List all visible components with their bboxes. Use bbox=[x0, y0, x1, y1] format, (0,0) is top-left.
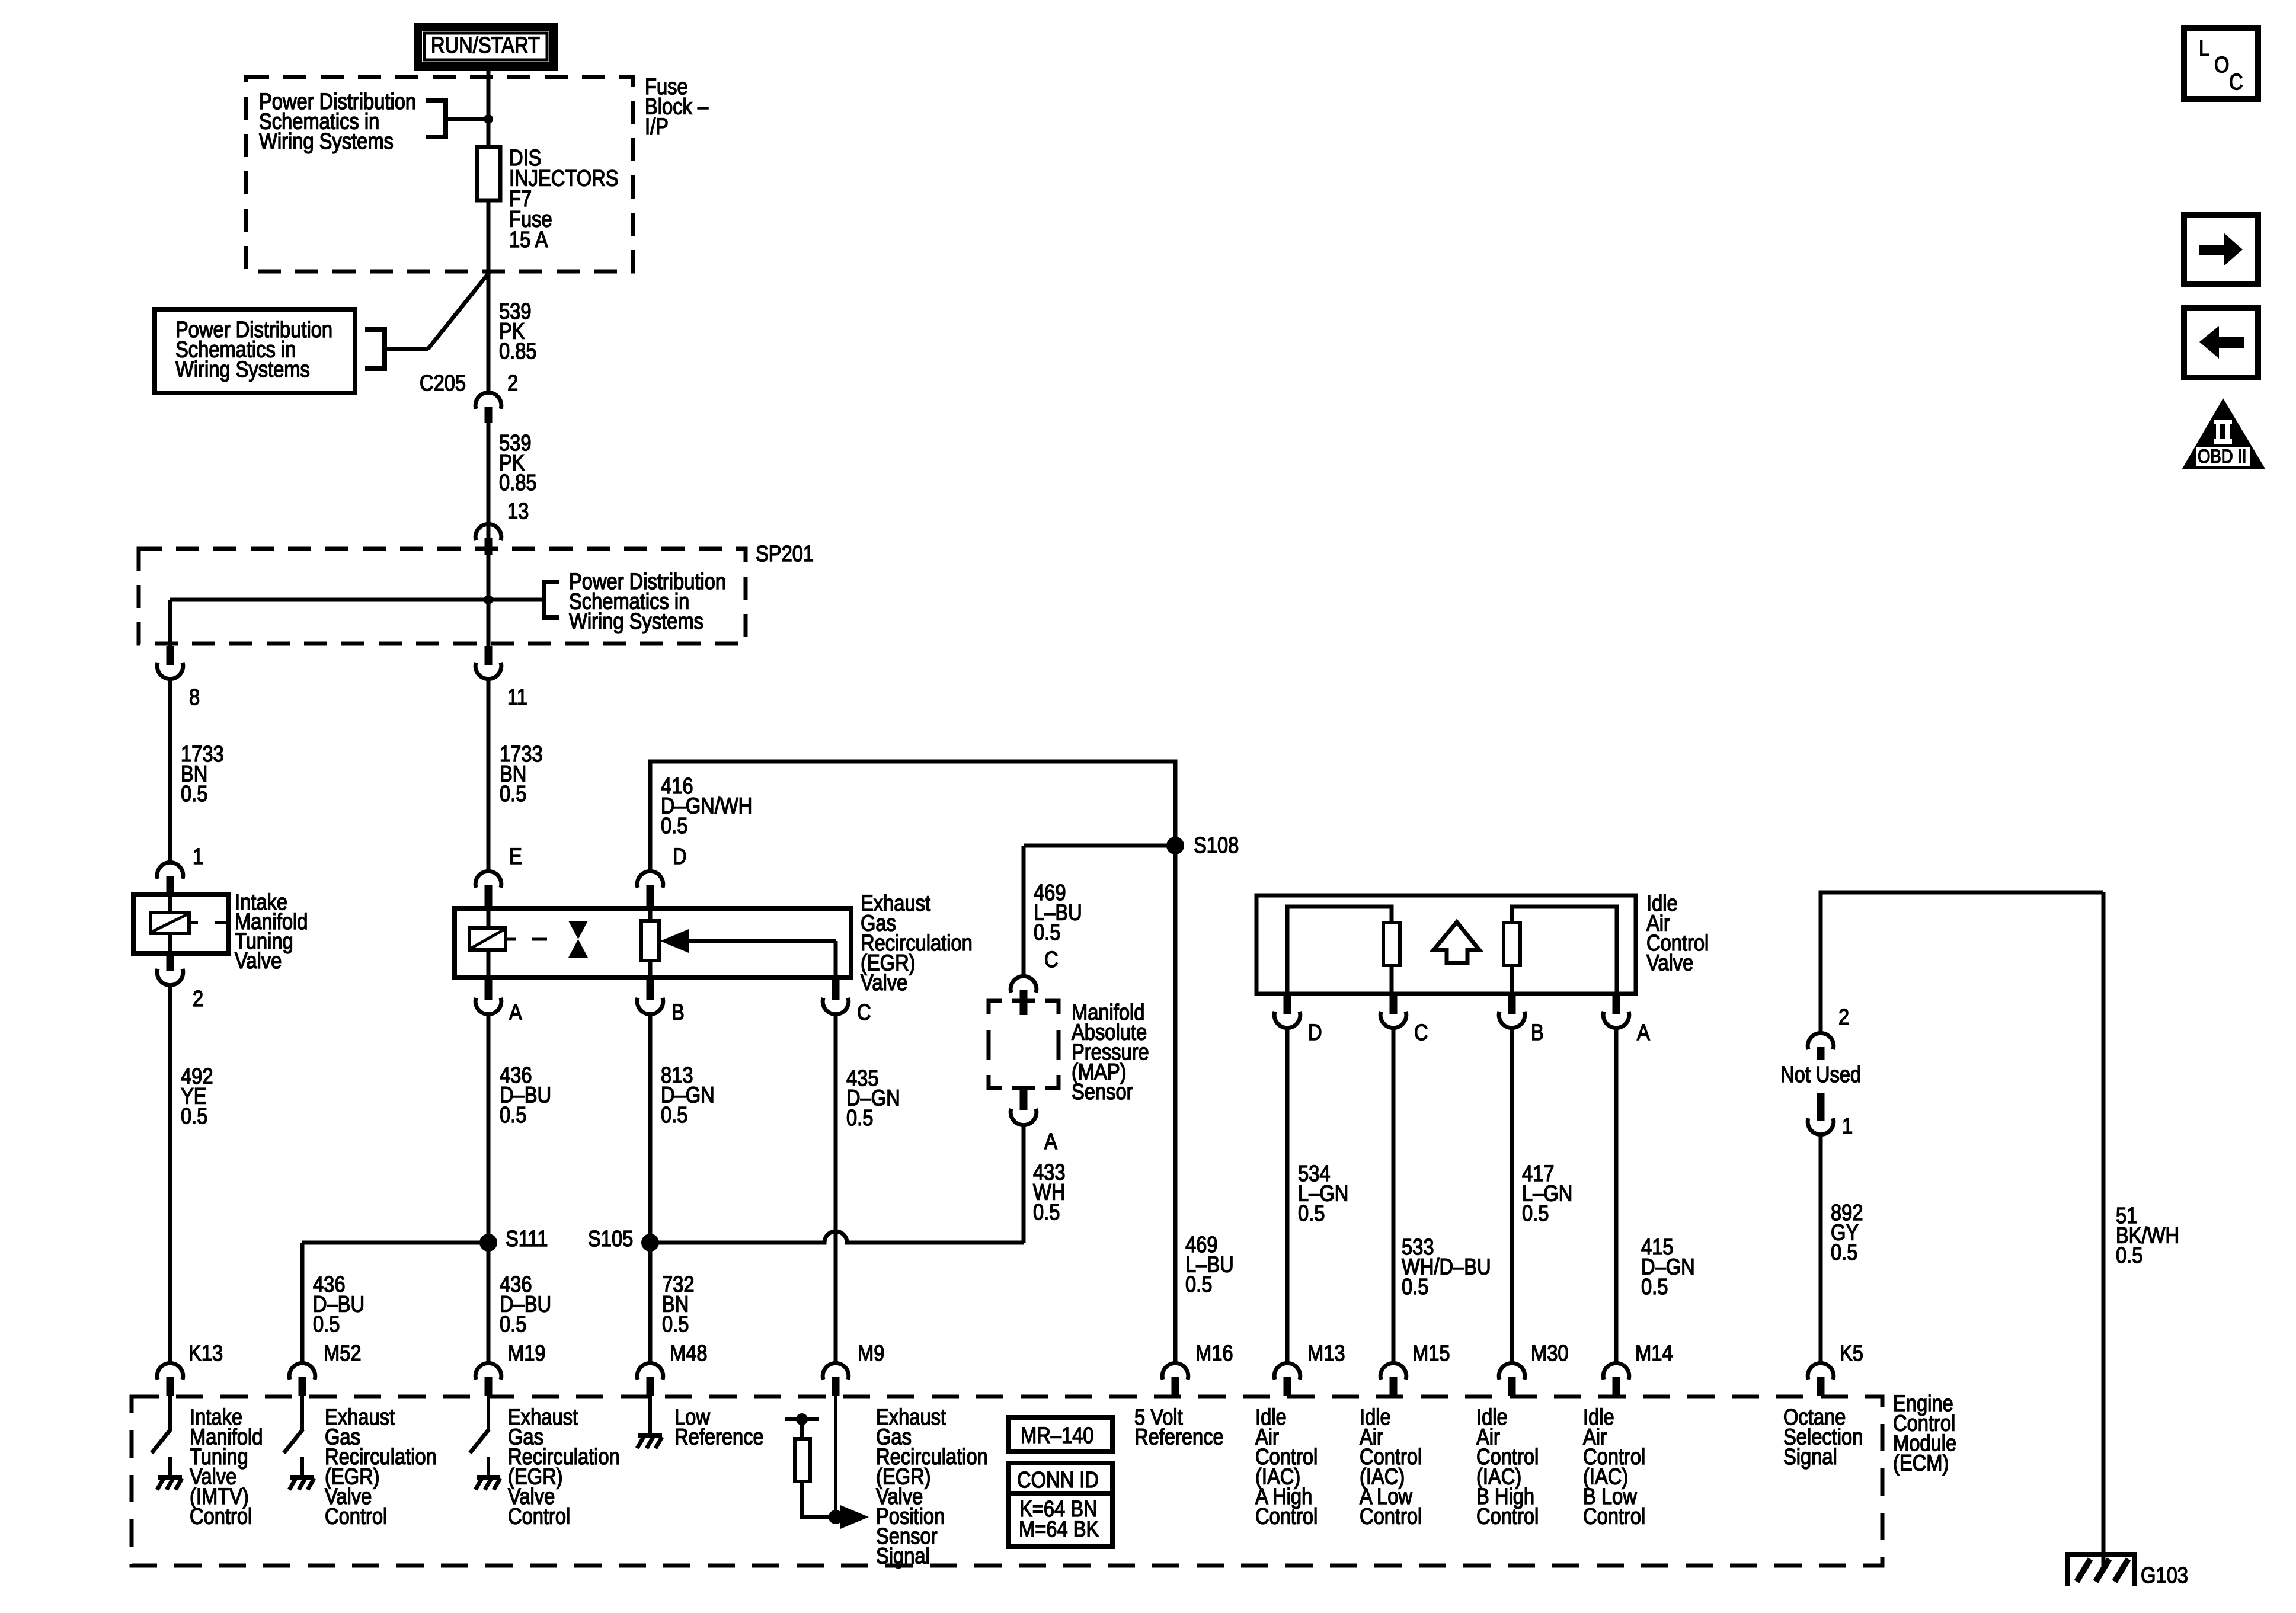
wire S108 to MAP C bbox=[1024, 844, 1175, 848]
svg-text:C: C bbox=[2229, 69, 2243, 95]
connector ECM pin K13 bbox=[157, 1363, 183, 1380]
wire SP201 to bracket bbox=[488, 598, 544, 602]
wire 415 D-GN bbox=[1614, 1028, 1619, 1364]
svg-text:G103: G103 bbox=[2141, 1563, 2188, 1588]
svg-text:1733BN0.5: 1733BN0.5 bbox=[500, 741, 543, 806]
svg-text:L: L bbox=[2199, 36, 2209, 61]
connector EGR pin E bbox=[475, 871, 501, 888]
svg-text:469L–BU0.5: 469L–BU0.5 bbox=[1034, 880, 1082, 945]
OBD II triangle symbol bbox=[2182, 398, 2265, 469]
svg-text:DISINJECTORSF7Fuse15 A: DISINJECTORSF7Fuse15 A bbox=[509, 145, 619, 252]
legend LOC box bbox=[2184, 28, 2258, 99]
svg-text:M16: M16 bbox=[1195, 1340, 1233, 1366]
connector ECM pin M48 bbox=[637, 1363, 663, 1380]
svg-text:A: A bbox=[509, 1000, 522, 1025]
wire diagonal branch to power distribution bbox=[428, 272, 490, 349]
ECM internal wire at M48 bbox=[648, 1394, 652, 1434]
ECM internal rail at M9 bbox=[785, 1417, 819, 1421]
connector EGR pin C bbox=[823, 998, 849, 1014]
connector ECM pin M9 bbox=[823, 1363, 849, 1380]
svg-text:M15: M15 bbox=[1412, 1340, 1450, 1366]
svg-text:C205: C205 bbox=[420, 370, 466, 396]
bracket to note 3 bbox=[544, 582, 559, 617]
svg-text:LowReference: LowReference bbox=[674, 1404, 764, 1449]
svg-text:K13: K13 bbox=[188, 1340, 223, 1366]
wire 813 EGR B to M48 bbox=[648, 1014, 653, 1364]
node EGR signal junction bbox=[829, 1510, 843, 1524]
ECM signal arrow bbox=[840, 1505, 869, 1529]
svg-text:1733BN0.5: 1733BN0.5 bbox=[181, 741, 224, 806]
ECM driver switch at M19 bbox=[487, 1394, 490, 1430]
node ECM rail tap bbox=[796, 1413, 808, 1425]
ECM internal ground at M52 bbox=[300, 1457, 304, 1476]
ground symbol at M52 bbox=[290, 1475, 314, 1480]
wire 892 GY bbox=[1819, 1134, 1823, 1364]
svg-text:M48: M48 bbox=[670, 1340, 708, 1366]
wire 533 WH/D-BU bbox=[1392, 1028, 1396, 1364]
svg-text:A: A bbox=[1637, 1020, 1650, 1045]
svg-text:436D–BU0.5: 436D–BU0.5 bbox=[500, 1272, 551, 1337]
splice pack SP201 dashed box bbox=[139, 549, 746, 644]
connector EGR pin B bbox=[637, 998, 663, 1014]
ECM driver switch at K13 bbox=[168, 1394, 172, 1430]
svg-text:Power DistributionSchematics i: Power DistributionSchematics inWiring Sy… bbox=[569, 569, 726, 634]
svg-text:OctaneSelectionSignal: OctaneSelectionSignal bbox=[1783, 1404, 1863, 1470]
legend left arrow box bbox=[2184, 308, 2258, 377]
svg-text:O: O bbox=[2214, 52, 2229, 78]
svg-text:2: 2 bbox=[507, 370, 518, 396]
svg-text:D: D bbox=[1308, 1020, 1322, 1045]
svg-text:MR–140: MR–140 bbox=[1021, 1423, 1093, 1448]
svg-text:C: C bbox=[1044, 947, 1059, 972]
node SP201 tap bbox=[484, 595, 493, 604]
wire octane loop top bbox=[1821, 892, 2103, 1033]
connector MAP pin C bbox=[1011, 976, 1037, 993]
ground symbol at K13 bbox=[158, 1475, 182, 1480]
connector not used pin 2 bbox=[1808, 1033, 1834, 1049]
legend right arrow box bbox=[2184, 215, 2258, 284]
connector pin 13 bbox=[475, 524, 501, 540]
connector IMTV pin 1 bbox=[157, 862, 183, 879]
svg-text:SP201: SP201 bbox=[756, 541, 814, 567]
wire S105 to MAP A with crossover bump bbox=[650, 1231, 1024, 1243]
svg-text:IntakeManifoldTuningValve: IntakeManifoldTuningValve bbox=[235, 889, 308, 974]
ECM internal ground at K13 bbox=[168, 1457, 172, 1476]
IAC coil A loop bbox=[1287, 907, 1392, 994]
wire 417 L-GN bbox=[1510, 1028, 1514, 1364]
wire 539 PK to SP201 bbox=[487, 423, 491, 646]
svg-text:B: B bbox=[1531, 1020, 1544, 1045]
MR-140 reference box bbox=[1008, 1417, 1112, 1452]
svg-text:C: C bbox=[1414, 1020, 1428, 1045]
svg-text:Power DistributionSchematics i: Power DistributionSchematics inWiring Sy… bbox=[259, 89, 416, 154]
wire 433 WH bbox=[1022, 1125, 1026, 1243]
wire through EGR pot bbox=[648, 908, 653, 978]
svg-text:S105: S105 bbox=[588, 1226, 633, 1252]
svg-text:RUN/START: RUN/START bbox=[431, 33, 540, 58]
IAC pintle arrow symbol bbox=[1434, 922, 1479, 963]
ground G103 symbol bbox=[2068, 1554, 2134, 1586]
connector IAC pin B bbox=[1499, 1012, 1525, 1028]
connector ECM pin M15 bbox=[1380, 1363, 1406, 1380]
svg-text:IntakeManifoldTuningValve(IMTV: IntakeManifoldTuningValve(IMTV)Control bbox=[190, 1404, 263, 1529]
svg-text:CONN ID: CONN ID bbox=[1017, 1467, 1099, 1493]
svg-text:M13: M13 bbox=[1307, 1340, 1345, 1366]
svg-text:OBD II: OBD II bbox=[2198, 446, 2247, 467]
wire 1733 BN right bbox=[487, 679, 491, 872]
svg-text:M30: M30 bbox=[1531, 1340, 1569, 1366]
svg-text:436D–BU0.5: 436D–BU0.5 bbox=[313, 1272, 364, 1337]
svg-text:Power DistributionSchematics i: Power DistributionSchematics inWiring Sy… bbox=[175, 317, 332, 382]
wire 492 YE bbox=[168, 985, 172, 1364]
svg-text:539PK0.85: 539PK0.85 bbox=[499, 299, 537, 364]
svg-text:732BN0.5: 732BN0.5 bbox=[662, 1272, 695, 1337]
svg-text:K5: K5 bbox=[1840, 1340, 1863, 1366]
connector IAC pin D bbox=[1274, 1012, 1300, 1028]
ignition feed RUN/START box bbox=[418, 27, 554, 66]
wire ignition feed bbox=[487, 66, 491, 393]
connector IMTV pin 2 bbox=[157, 969, 183, 985]
EGR solenoid coil bbox=[469, 928, 506, 950]
EGR position sensor element bbox=[641, 921, 659, 961]
ECM internal resistor bbox=[800, 1419, 804, 1439]
svg-text:813D–GN0.5: 813D–GN0.5 bbox=[661, 1062, 715, 1128]
node S108 bbox=[1166, 837, 1184, 854]
svg-text:539PK0.85: 539PK0.85 bbox=[499, 430, 537, 495]
bracket to note 2 bbox=[365, 329, 385, 369]
svg-text:A: A bbox=[1044, 1129, 1057, 1154]
bracket to note 1 bbox=[426, 100, 446, 137]
connector ECM pin M13 bbox=[1274, 1363, 1300, 1380]
svg-text:EngineControlModule(ECM): EngineControlModule(ECM) bbox=[1893, 1391, 1956, 1476]
engine control module dashed box bbox=[132, 1397, 1882, 1566]
svg-text:M14: M14 bbox=[1635, 1340, 1673, 1366]
svg-text:11: 11 bbox=[507, 684, 527, 710]
wire 1733 BN left bbox=[168, 679, 172, 863]
EGR pintle valve symbol bbox=[568, 921, 588, 939]
IMTV solenoid coil bbox=[151, 913, 189, 933]
ECM internal ground at M19 bbox=[487, 1457, 490, 1476]
EGR wiper arrow bbox=[687, 939, 836, 943]
svg-text:433WH0.5: 433WH0.5 bbox=[1033, 1160, 1066, 1225]
wire 469 L-BU drop bbox=[1022, 846, 1026, 977]
svg-text:S111: S111 bbox=[506, 1226, 548, 1252]
svg-text:533WH/D–BU0.5: 533WH/D–BU0.5 bbox=[1402, 1234, 1491, 1300]
MAP sensor dashed box bbox=[989, 1001, 1002, 1014]
svg-text:ExhaustGasRecirculation(EGR)Va: ExhaustGasRecirculation(EGR)ValveControl bbox=[325, 1404, 437, 1529]
connector EGR pin A bbox=[475, 998, 501, 1014]
svg-text:M19: M19 bbox=[508, 1340, 546, 1366]
connector SP201 pin 8 bbox=[157, 663, 183, 679]
wire S111 branch to M52 bbox=[302, 1241, 488, 1245]
svg-text:534L–GN0.5: 534L–GN0.5 bbox=[1298, 1161, 1348, 1226]
intake manifold tuning valve box bbox=[133, 894, 228, 953]
node S105 bbox=[641, 1234, 659, 1252]
svg-text:492YE0.5: 492YE0.5 bbox=[181, 1064, 213, 1129]
connector ECM pin M19 bbox=[475, 1363, 501, 1380]
svg-text:M9: M9 bbox=[858, 1340, 884, 1366]
svg-text:13: 13 bbox=[507, 498, 529, 524]
svg-text:E: E bbox=[509, 844, 522, 869]
svg-text:417L–GN0.5: 417L–GN0.5 bbox=[1522, 1161, 1572, 1226]
ECM internal EGR position sense wire bbox=[834, 1394, 837, 1517]
wire 51 BK/WH bbox=[2102, 892, 2106, 1572]
svg-text:S108: S108 bbox=[1194, 833, 1239, 858]
svg-text:IdleAirControlValve: IdleAirControlValve bbox=[1646, 891, 1709, 975]
svg-text:ExhaustGasRecirculation(EGR)Va: ExhaustGasRecirculation(EGR)Valve bbox=[861, 891, 973, 996]
svg-text:D: D bbox=[673, 844, 687, 869]
svg-text:469L–BU0.5: 469L–BU0.5 bbox=[1185, 1232, 1234, 1297]
wire M52 drop bbox=[300, 1243, 305, 1364]
ground symbol at M19 bbox=[477, 1475, 500, 1480]
svg-text:IdleAirControl(IAC)B HighContr: IdleAirControl(IAC)B HighControl bbox=[1476, 1404, 1539, 1529]
svg-text:2: 2 bbox=[1838, 1004, 1849, 1030]
wire 435 EGR C to M9 bbox=[834, 1014, 838, 1364]
svg-text:IdleAirControl(IAC)A HighContr: IdleAirControl(IAC)A HighControl bbox=[1255, 1404, 1318, 1529]
svg-text:IdleAirControl(IAC)B LowContro: IdleAirControl(IAC)B LowControl bbox=[1583, 1404, 1645, 1529]
svg-text:8: 8 bbox=[189, 684, 200, 710]
connector SP201 pin 11 bbox=[475, 663, 501, 679]
IAC coil B loop bbox=[1510, 965, 1514, 994]
connector IAC pin A bbox=[1603, 1012, 1629, 1028]
svg-text:M=64 BK: M=64 BK bbox=[1019, 1516, 1099, 1542]
connector C205 pin 2 bbox=[475, 392, 501, 409]
svg-text:415D–GN0.5: 415D–GN0.5 bbox=[1641, 1234, 1695, 1300]
wire through IMTV bbox=[168, 894, 172, 953]
idle air control valve box bbox=[1256, 895, 1636, 994]
wire EGR wiper to pin C bbox=[834, 941, 838, 978]
connector ECM pin M14 bbox=[1603, 1363, 1629, 1380]
svg-text:ExhaustGasRecirculation(EGR)Va: ExhaustGasRecirculation(EGR)ValvePositio… bbox=[876, 1404, 988, 1569]
svg-text:C: C bbox=[857, 1000, 871, 1025]
EGR valve box bbox=[455, 908, 851, 978]
svg-text:416D–GN/WH0.5: 416D–GN/WH0.5 bbox=[661, 773, 752, 838]
wire through EGR solenoid bbox=[487, 908, 491, 978]
connector ECM pin M52 bbox=[289, 1363, 315, 1380]
svg-text:892GY0.5: 892GY0.5 bbox=[1831, 1200, 1863, 1265]
wire 534 L-GN bbox=[1285, 1028, 1290, 1364]
svg-text:IdleAirControl(IAC)A LowContro: IdleAirControl(IAC)A LowControl bbox=[1360, 1404, 1422, 1529]
connector ECM pin M30 bbox=[1499, 1363, 1525, 1380]
svg-text:5 VoltReference: 5 VoltReference bbox=[1134, 1404, 1224, 1449]
connector IAC pin C bbox=[1380, 1012, 1406, 1028]
fuse F7 DIS INJECTORS bbox=[477, 147, 500, 200]
ground symbol at M48 bbox=[638, 1433, 662, 1438]
node fuse block tap bbox=[484, 114, 493, 124]
solid box power distribution schematics 2 bbox=[155, 309, 355, 393]
svg-text:1: 1 bbox=[193, 844, 203, 869]
wire 416 D-GN/WH bbox=[650, 761, 1175, 1364]
svg-text:1: 1 bbox=[1842, 1113, 1853, 1139]
svg-text:M52: M52 bbox=[324, 1340, 362, 1366]
connector ECM pin M16 bbox=[1162, 1363, 1188, 1380]
svg-text:436D–BU0.5: 436D–BU0.5 bbox=[500, 1062, 551, 1128]
connector MAP pin A bbox=[1011, 1109, 1037, 1125]
wire SP201 left drop bbox=[168, 600, 172, 646]
svg-text:FuseBlock –I/P: FuseBlock –I/P bbox=[645, 74, 708, 139]
svg-text:Not Used: Not Used bbox=[1780, 1062, 1861, 1087]
wire SP201 bus bbox=[170, 598, 488, 602]
node S111 bbox=[479, 1234, 497, 1252]
connector ECM pin K5 bbox=[1808, 1363, 1834, 1380]
svg-text:B: B bbox=[671, 1000, 685, 1025]
wire 436 EGR A to M19 bbox=[487, 1014, 491, 1364]
ECM driver switch at M52 bbox=[300, 1394, 304, 1430]
fuse block - I/P dashed box bbox=[246, 77, 633, 271]
svg-text:51BK/WH0.5: 51BK/WH0.5 bbox=[2116, 1203, 2179, 1268]
svg-text:ExhaustGasRecirculation(EGR)Va: ExhaustGasRecirculation(EGR)ValveControl bbox=[508, 1404, 620, 1529]
svg-text:ManifoldAbsolutePressure(MAP)S: ManifoldAbsolutePressure(MAP)Sensor bbox=[1072, 1000, 1149, 1105]
connector EGR pin D bbox=[637, 871, 663, 888]
svg-text:2: 2 bbox=[193, 986, 203, 1012]
CONN ID box bbox=[1008, 1463, 1112, 1547]
connector not used pin 1 bbox=[1808, 1118, 1834, 1135]
svg-text:435D–GN0.5: 435D–GN0.5 bbox=[846, 1065, 900, 1131]
